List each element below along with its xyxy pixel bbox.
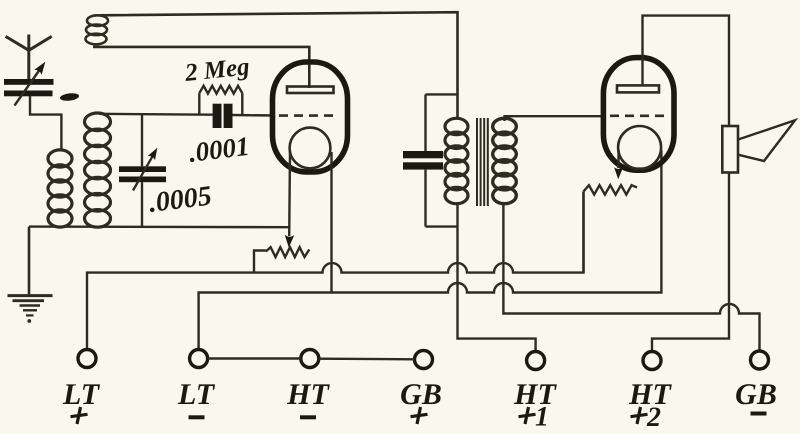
wire speaker to HT+2 — [652, 172, 729, 352]
label GB+ — [400, 378, 442, 424]
terminal HT- — [301, 350, 319, 368]
label HT+1 — [513, 378, 557, 433]
grid coil L2 — [85, 113, 111, 227]
label LT+ — [62, 378, 101, 424]
valve V1 filament — [290, 128, 331, 169]
svg-text:LT: LT — [62, 378, 101, 411]
valve V2 envelope — [603, 58, 674, 171]
terminal GB+ — [415, 351, 433, 369]
label GB- — [735, 378, 777, 416]
speaker LS1 — [722, 120, 795, 172]
wire secondary bottom to GB- (with hop) — [503, 202, 759, 351]
wire V2 filament left lead / wiper — [614, 150, 623, 179]
capacitor C4 .0001 grid condenser — [213, 104, 233, 128]
capacitor C3 (across primary) — [403, 94, 458, 226]
label LT- — [177, 378, 216, 419]
wire L3 bottom line to V1 plate — [93, 47, 309, 88]
antenna A1 — [6, 35, 52, 80]
terminal HT+2 — [643, 352, 661, 370]
terminal GB- — [751, 351, 769, 369]
svg-text:LT: LT — [177, 378, 216, 411]
wire antenna to L1 — [30, 96, 61, 151]
terminal LT+ — [78, 350, 96, 368]
label HT+2 — [628, 378, 672, 433]
svg-text:1: 1 — [535, 402, 549, 430]
valve V2 anode — [617, 85, 659, 92]
rheostat R2 — [254, 247, 309, 272]
valve V2 grid (dashed) — [610, 115, 664, 118]
valve V2 filament — [618, 126, 661, 169]
wire V1 filament left lead / wiper — [285, 151, 295, 248]
variable capacitor C2 .0005 — [119, 114, 166, 227]
svg-text:HT: HT — [286, 378, 330, 411]
wire L3 top line to transformer — [100, 12, 458, 119]
label .0005 — [147, 181, 213, 219]
valve V1 anode — [287, 87, 334, 94]
terminal HT+1 — [527, 352, 545, 370]
wire to ground — [28, 227, 31, 296]
wire earth rail — [29, 225, 289, 228]
resistor R1 2Meg grid leak — [199, 86, 242, 116]
transformer T1 secondary — [493, 118, 517, 203]
wire V1 filament right lead — [330, 152, 332, 293]
label 2 Meg — [183, 53, 251, 87]
aerial coil L1 — [48, 150, 72, 227]
ground — [8, 296, 53, 323]
wire LT- rail (with hops) — [199, 151, 662, 350]
variable capacitor C1 (aerial series) — [4, 62, 54, 106]
ink blob — [60, 92, 80, 101]
terminal LT- — [190, 350, 208, 368]
wire strap HT- to GB+ — [319, 358, 414, 361]
valve V1 envelope — [273, 62, 348, 172]
label .0001 — [187, 131, 251, 168]
wire V2 plate to speaker — [643, 16, 730, 127]
wire secondary top to V2 grid — [505, 116, 606, 121]
reaction coil L3 loops — [86, 15, 109, 44]
svg-text:GB: GB — [400, 378, 442, 411]
label HT- — [286, 378, 330, 419]
transformer T1 primary — [445, 118, 468, 203]
wire C4 to V1 grid — [233, 114, 276, 117]
wire strap LT- to HT- — [208, 357, 301, 359]
wire LT+ rail (with hops) — [87, 192, 584, 350]
wire grid lead — [99, 113, 213, 116]
wire primary bottom to HT+1 — [458, 202, 536, 352]
svg-text:GB: GB — [735, 378, 777, 411]
transformer T1 core — [477, 118, 488, 206]
svg-text:2: 2 — [646, 402, 661, 429]
rheostat R3 — [584, 185, 638, 272]
valve V1 grid (dashed) — [279, 114, 336, 117]
